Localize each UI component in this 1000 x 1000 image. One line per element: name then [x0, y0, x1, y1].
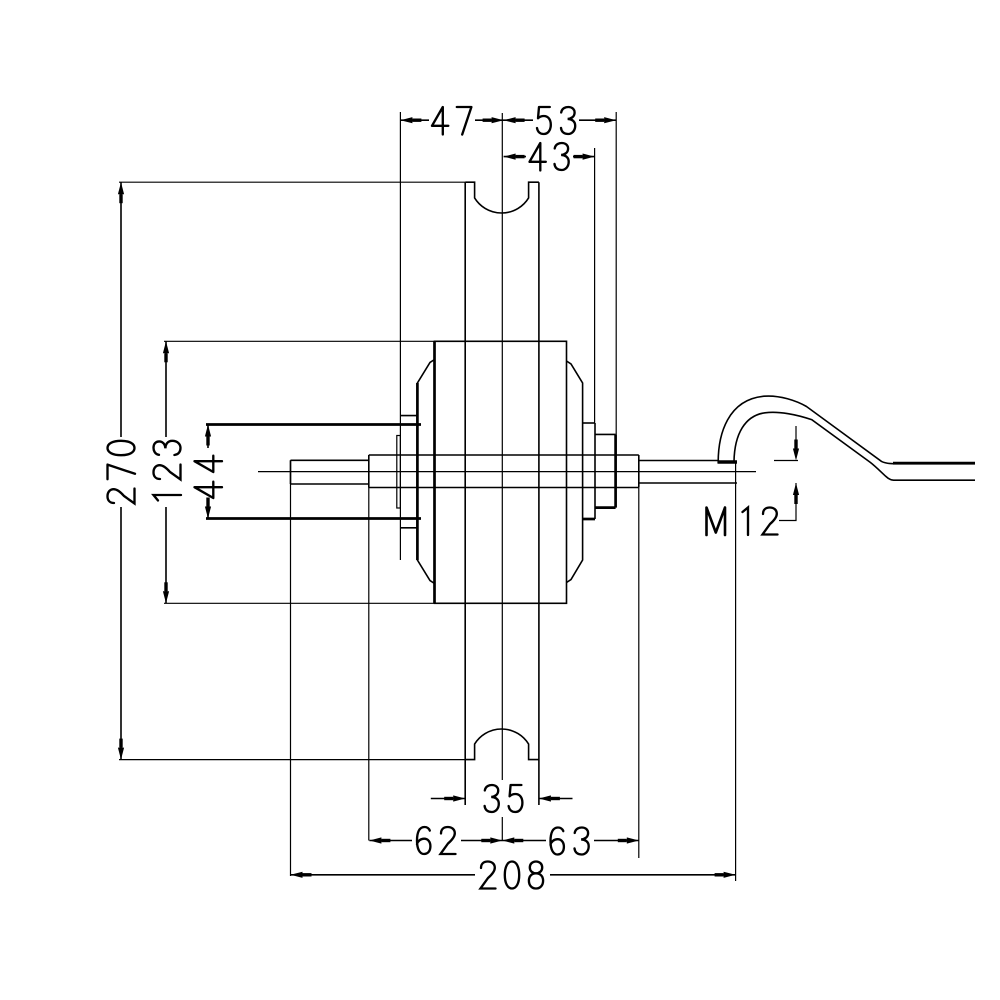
freewheel boss face bold — [614, 434, 617, 507]
dim 63 left arrow — [502, 837, 523, 843]
left step bottom — [400, 527, 417, 529]
text 208 — [481, 862, 544, 889]
dim 47-53 line — [400, 119, 616, 121]
dim 270 top arrow — [118, 182, 124, 203]
ext line 53 right — [615, 112, 617, 434]
cable outer edge — [718, 396, 893, 464]
dim 43 line — [504, 156, 595, 158]
text 43 — [530, 143, 569, 171]
rim top profile — [465, 182, 539, 213]
dim 47 right arrow — [483, 117, 504, 123]
ext 63 right — [638, 488, 640, 858]
ext 123 top — [164, 340, 435, 342]
dim 43 left arrow — [504, 154, 525, 160]
dim 44 bottom arrow — [205, 498, 211, 519]
cable foot bold — [718, 460, 738, 463]
axle left thread top — [291, 459, 369, 461]
motor right cover — [567, 361, 583, 583]
axle right thread bottom — [639, 482, 737, 484]
left step top — [400, 415, 417, 417]
dim 35 line — [431, 798, 573, 800]
ext 208 left — [290, 460, 292, 876]
text M12 — [707, 508, 778, 536]
left washer plate — [397, 436, 401, 509]
axle left shoulder — [368, 455, 370, 488]
right step upper horizontal — [583, 422, 595, 424]
axle wide section bottom — [369, 487, 639, 489]
dim 53 right arrow — [595, 117, 616, 123]
dim 208 left arrow — [291, 872, 312, 878]
dim 62-63 line — [369, 840, 638, 842]
text 270 — [108, 441, 136, 504]
ext line center — [501, 113, 503, 841]
text 47 — [432, 107, 471, 135]
dim 35 left arrow — [444, 795, 465, 801]
dim 47 left arrow — [400, 117, 421, 123]
dim 44 top arrow — [205, 425, 211, 446]
text 62 — [417, 827, 456, 854]
cable inner edge — [734, 412, 975, 480]
dim 62 left arrow — [369, 837, 390, 843]
ext 270 bottom — [119, 759, 465, 761]
motor main body rectangle — [435, 341, 567, 603]
motor left cover — [417, 360, 434, 584]
ext 123 bottom — [164, 602, 435, 604]
M12 upper leader — [795, 426, 797, 444]
text 35 — [485, 785, 523, 812]
axle right shoulder — [638, 455, 640, 488]
dim 53 left arrow — [504, 117, 525, 123]
dim 208 line — [291, 874, 736, 876]
M12 upper arrow — [793, 440, 799, 461]
dim 123 top arrow — [163, 341, 169, 362]
M12 lower leader — [779, 483, 796, 521]
axle left end face — [290, 460, 292, 484]
dim 270 vertical line — [120, 182, 122, 759]
dim 123 bottom arrow — [163, 582, 169, 603]
axle left thread bottom — [291, 483, 369, 485]
dim 123 vertical line — [165, 341, 167, 603]
dim 35 right arrow — [539, 795, 560, 801]
dim 44 vertical line — [207, 425, 209, 519]
rim bottom profile — [465, 729, 539, 760]
motor left edge bold — [433, 341, 436, 603]
freewheel boss bottom bold — [595, 506, 616, 509]
dim 62 right arrow — [481, 837, 502, 843]
ext 208 right — [735, 461, 737, 881]
M12 upper tick — [774, 460, 798, 462]
text 44 — [195, 456, 223, 498]
ext 270 top — [119, 181, 465, 183]
ext 44 top bold — [206, 423, 421, 426]
ext 44 bottom bold — [206, 517, 421, 520]
text 63 — [551, 828, 589, 855]
text 53 — [537, 107, 575, 134]
motor left cover edge bold — [416, 383, 419, 560]
dim 63 right arrow — [618, 837, 639, 843]
dim 208 right arrow — [715, 872, 736, 878]
right step vertical — [594, 423, 596, 519]
axle centerline — [258, 471, 756, 473]
text 123 — [154, 441, 182, 501]
right step lower horizontal bold — [583, 518, 595, 521]
rim left outer wall — [464, 182, 466, 805]
dim 43 right arrow — [574, 154, 595, 160]
ext line 43 right — [594, 148, 596, 423]
freewheel boss top — [595, 433, 616, 435]
axle wide section top — [369, 454, 639, 456]
M12 lower arrow — [793, 483, 799, 504]
axle right thread top — [639, 460, 719, 462]
rim right outer wall — [538, 182, 540, 805]
ext line 47 left — [399, 112, 401, 560]
dim 270 bottom arrow — [118, 739, 124, 760]
cable outer straight bold — [893, 462, 975, 465]
ext 62 left — [368, 455, 370, 841]
